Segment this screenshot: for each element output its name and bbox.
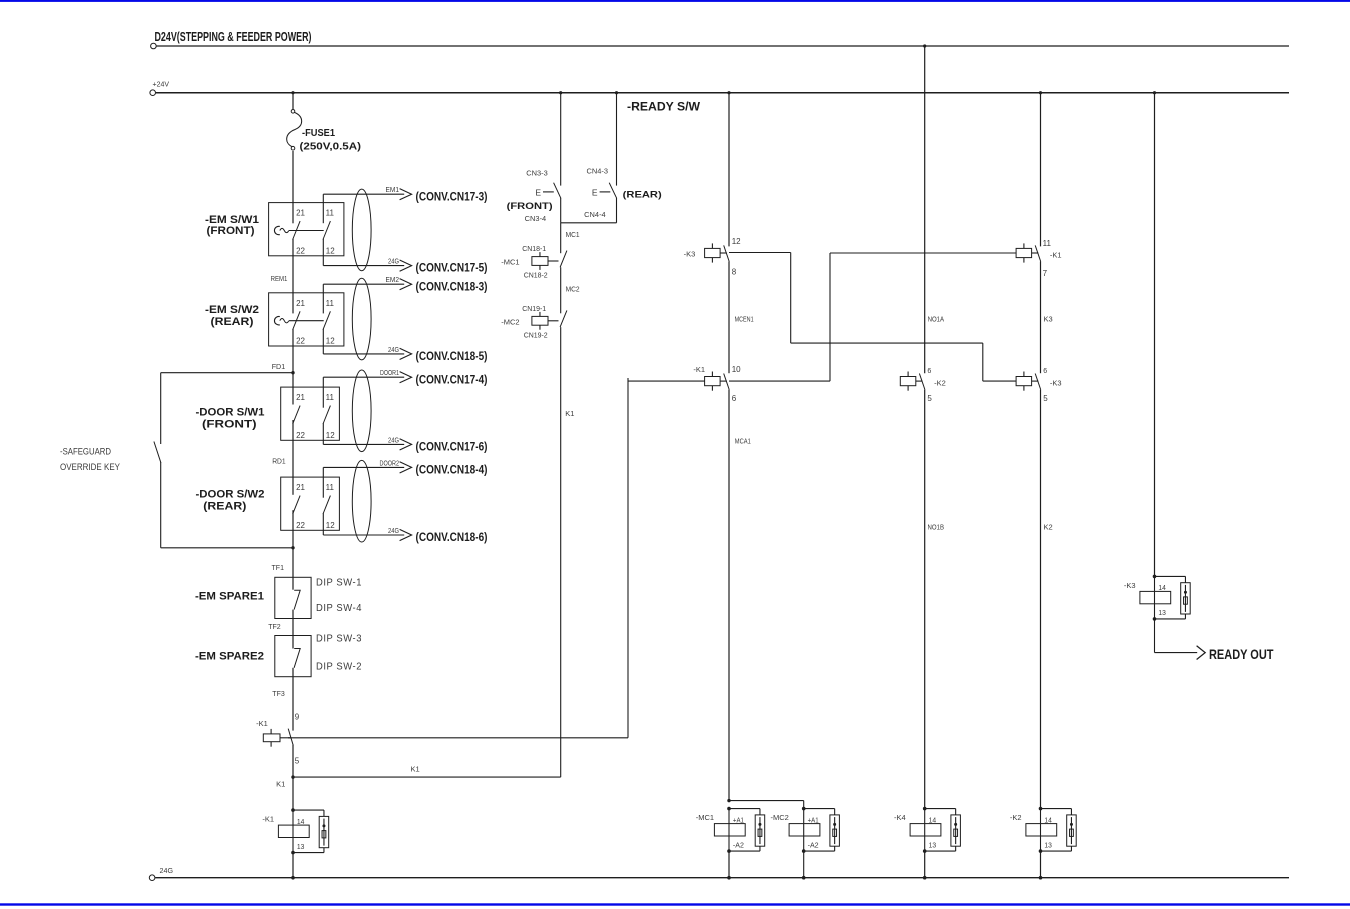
relay contact -K3 (6/5) actuator box <box>1016 372 1032 391</box>
svg-text:FD1: FD1 <box>272 362 286 371</box>
junction dot front E branch at +24V <box>559 91 562 94</box>
svg-text:-K3: -K3 <box>1124 581 1136 590</box>
relay contact -K1 (11/7) moving contact <box>1035 245 1041 261</box>
svg-text:(CONV.CN17-4): (CONV.CN17-4) <box>416 374 488 386</box>
label pin 8 <box>732 267 737 276</box>
EM SPARE1 contact <box>294 590 300 609</box>
door switch DOOR S/W1 bottom output corner wire <box>322 423 324 444</box>
contactor coil -MC2 suppressor top wire <box>804 809 835 815</box>
svg-text:TF3: TF3 <box>272 689 285 698</box>
emergency switch EM S/W1 top output corner wire <box>322 194 324 223</box>
wire MC column to 24G rail <box>728 851 730 878</box>
door switch DOOR S/W2 cable ellipse <box>352 460 371 542</box>
svg-text:12: 12 <box>732 237 741 246</box>
svg-text:K3: K3 <box>1044 315 1053 324</box>
wire ready branch to MC1 contact <box>560 223 562 253</box>
relay coil -K1 suppressor bottom wire <box>293 848 324 853</box>
svg-text:11: 11 <box>326 299 335 308</box>
label net K3 <box>1044 315 1053 324</box>
label DIP SW-4 <box>316 603 362 614</box>
svg-text:12: 12 <box>326 431 335 440</box>
door switch DOOR S/W1 right contact <box>323 406 330 424</box>
svg-text:11: 11 <box>1043 239 1052 248</box>
wire safeguard vertical upper <box>160 373 162 444</box>
label -READY S/W <box>627 102 700 114</box>
svg-text:-EM SPARE2: -EM SPARE2 <box>195 651 264 663</box>
label -EM SPARE2 <box>195 651 264 663</box>
svg-text:7: 7 <box>1043 269 1048 278</box>
svg-text:21: 21 <box>296 483 305 492</box>
label relay coil -K2 pin 14 <box>1044 815 1052 824</box>
label wire name DOOR1 <box>380 368 399 377</box>
svg-text:(CONV.CN18-5): (CONV.CN18-5) <box>416 351 488 363</box>
EM SPARE1 box <box>275 577 311 618</box>
emergency switch EM S/W1 enclosure box <box>269 203 344 256</box>
wire NO1B segment <box>924 390 926 809</box>
emergency switch EM S/W1 pin label 11 <box>326 209 335 218</box>
svg-text:-SAFEGUARD: -SAFEGUARD <box>60 447 111 457</box>
emergency switch EM S/W2 key operator symbol <box>274 317 288 325</box>
svg-text:MC1: MC1 <box>566 230 580 239</box>
wire main column fuse to EM S/W1 <box>292 151 294 223</box>
svg-text:-K2: -K2 <box>1010 813 1022 822</box>
contactor coil -MC2 coil rectangle <box>789 824 820 836</box>
label relay contact -K3 (6/5) name -K3 <box>1050 379 1062 388</box>
relay contact -K3 (6/5) link to contact <box>1032 380 1039 382</box>
net D24V rail wire <box>151 43 1289 49</box>
wire MC2 branch to 24G rail <box>803 851 805 878</box>
label relay coil -K4 pin 13 <box>929 840 937 849</box>
relay coil -K2 coil rectangle <box>1026 824 1057 836</box>
svg-text:DIP SW-2: DIP SW-2 <box>316 662 362 673</box>
emergency switch EM S/W1 pin label 21 <box>296 209 305 218</box>
junction dot rear E branch at +24V <box>615 91 618 94</box>
contactor coil -MC1 surge suppressor <box>755 815 765 846</box>
wire readyline riser <box>627 378 629 738</box>
contact -MC1 moving contact <box>560 251 567 268</box>
svg-text:13: 13 <box>929 840 937 849</box>
svg-text:5: 5 <box>927 394 932 403</box>
relay coil -K4 suppressor bottom wire <box>925 846 956 851</box>
arrow head 24G to CONV.CN17-5 <box>400 260 412 271</box>
svg-text:(CONV.CN17-6): (CONV.CN17-6) <box>416 442 488 454</box>
svg-text:CN3-3: CN3-3 <box>526 171 548 178</box>
svg-text:5: 5 <box>295 756 300 765</box>
emergency switch EM S/W1 key operator symbol <box>274 226 288 234</box>
junction dot safeguard bottom at main column <box>291 546 294 549</box>
relay coil -K4 bottom junction dot <box>923 849 927 853</box>
svg-text:-A2: -A2 <box>808 840 819 849</box>
junction dot MC column at +24V <box>727 91 730 94</box>
label contact -MC1 pin CN18-2 <box>524 273 548 280</box>
relay coil -K2 suppressor bottom wire <box>1041 846 1072 851</box>
wire main column below DOOR S/W1 <box>292 420 294 495</box>
EM SPARE2 contact <box>294 649 300 668</box>
relay coil -K1 top junction dot <box>291 808 295 812</box>
svg-text:K1: K1 <box>411 765 420 774</box>
svg-text:14: 14 <box>297 817 305 826</box>
label relay contact -K1 (10/6) name -K1 <box>693 365 705 374</box>
wire safeguard top branch <box>161 372 293 374</box>
svg-text:CN3-4: CN3-4 <box>525 216 547 223</box>
label CN3-3 <box>526 171 548 178</box>
wire K3 column to 24G <box>1040 851 1042 878</box>
svg-text:DOOR1: DOOR1 <box>380 368 399 377</box>
relay coil -K1 bottom junction dot <box>291 851 295 855</box>
svg-text:+24V: +24V <box>153 80 170 89</box>
svg-text:-K3: -K3 <box>684 250 696 259</box>
label wire name 24G <box>388 345 399 354</box>
junction dot FD1 <box>291 371 294 374</box>
net +24V rail wire <box>150 90 1289 96</box>
relay coil -K2 wire through coil <box>1040 809 1042 852</box>
svg-text:9: 9 <box>295 712 300 721</box>
label net MCA1 <box>735 437 751 446</box>
label destination (CONV.CN17-6) <box>416 442 488 454</box>
wire safeguard vertical lower <box>160 462 162 548</box>
wire main column coil to 24G rail <box>292 853 294 878</box>
E-stop contact rear (CN4-3/CN4-4) <box>609 183 617 199</box>
label fuse rating (250V,0.5A) <box>300 141 362 153</box>
svg-text:(CONV.CN18-4): (CONV.CN18-4) <box>416 465 488 477</box>
label wire name DOOR2 <box>380 458 400 467</box>
relay coil -K3 wire through coil <box>1154 576 1156 619</box>
contactor coil -MC2 suppressor bottom wire <box>804 846 835 851</box>
relay contact -K2 (6/5) actuator box <box>900 372 916 391</box>
label DIP SW-2 <box>316 662 362 673</box>
door switch DOOR S/W2 top output corner wire <box>322 467 324 497</box>
wire main column through EM S/W1 box <box>292 239 294 314</box>
label destination (CONV.CN17-4) <box>416 374 488 386</box>
label CN3-4 <box>525 216 547 223</box>
relay contact -K2 (6/5) moving contact <box>919 374 925 390</box>
svg-text:(250V,0.5A): (250V,0.5A) <box>300 141 362 153</box>
svg-text:6: 6 <box>1043 368 1047 375</box>
wire EM1 to CONV.CN17-3 output <box>323 193 404 195</box>
label relay coil -K3 pin 14 <box>1158 583 1166 592</box>
svg-text:MCEN1: MCEN1 <box>735 315 754 324</box>
svg-text:22: 22 <box>296 521 305 530</box>
svg-text:21: 21 <box>296 393 305 402</box>
label net NO1A <box>928 315 945 324</box>
svg-text:(REAR): (REAR) <box>623 190 662 201</box>
label net MCEN1 <box>735 315 754 324</box>
junction dot main column at 24G rail <box>291 876 295 880</box>
svg-text:24G: 24G <box>388 435 399 444</box>
arrow head EM1 to CONV.CN17-3 <box>400 189 412 200</box>
relay contact -K1 (10/6) actuator box <box>705 372 721 391</box>
door switch DOOR S/W1 left contact <box>293 406 300 424</box>
door switch DOOR S/W1 pin label 12 <box>326 431 335 440</box>
wire main column below spare2 <box>292 668 294 731</box>
relay contact -K1 (9/5) actuator box <box>263 729 280 747</box>
label (REAR) door2 <box>203 501 246 513</box>
border top blue line <box>0 0 1350 2</box>
label destination (CONV.CN17-3) <box>416 191 488 203</box>
label pin 5 (K2) <box>927 394 932 403</box>
wire 24G to CONV.CN17-5 output <box>323 265 404 267</box>
svg-text:-MC1: -MC1 <box>696 813 714 822</box>
label CN4-3 <box>587 169 609 176</box>
label pin 12 <box>732 237 741 246</box>
label pin 7 <box>1043 269 1048 278</box>
relay coil -K3 bottom junction dot <box>1153 617 1157 621</box>
svg-text:-MC2: -MC2 <box>501 317 519 326</box>
svg-text:-K4: -K4 <box>894 813 906 822</box>
label pin 9 <box>295 712 300 721</box>
wire 24G to CONV.CN17-6 output <box>323 443 404 445</box>
label contact -MC2 pin CN19-2 <box>524 332 548 339</box>
contactor coil -MC2 top junction dot <box>802 807 806 811</box>
relay coil -K3 suppressor top wire <box>1155 576 1186 582</box>
contact -MC1 actuator box <box>532 252 548 270</box>
label relay contact -K1 (9/5) name <box>256 719 268 728</box>
wire K3 net segment <box>1040 262 1042 374</box>
svg-text:6: 6 <box>927 368 931 375</box>
svg-text:K1: K1 <box>565 409 574 418</box>
wire K1 contact to K1(11/7) <box>729 253 1016 381</box>
label -EM SPARE1 <box>195 591 264 603</box>
label node TF2 <box>268 622 281 631</box>
svg-text:-A2: -A2 <box>733 840 744 849</box>
label contact -MC2 name <box>501 317 519 326</box>
svg-text:CN4-4: CN4-4 <box>584 212 606 219</box>
svg-text:24G: 24G <box>388 526 399 535</box>
emergency switch EM S/W1 left contact <box>293 221 300 239</box>
svg-text:21: 21 <box>296 299 305 308</box>
wire front E branch upper <box>560 93 562 186</box>
door switch DOOR S/W2 right contact <box>323 496 330 514</box>
door switch DOOR S/W2 left contact <box>293 496 300 514</box>
net +24V label <box>153 80 170 89</box>
svg-text:READY OUT: READY OUT <box>1209 646 1274 662</box>
label wire name EM2 <box>386 275 400 284</box>
label relay contact -K1 (11/7) name -K1 <box>1050 251 1062 260</box>
emergency switch EM S/W1 mechanical link wire <box>289 230 324 232</box>
junction dot MC column at 24G <box>727 876 731 880</box>
junction dot seal rung <box>291 775 294 778</box>
relay contact -K1 (11/7) link to contact <box>1032 252 1039 254</box>
svg-text:MC2: MC2 <box>566 285 580 294</box>
contactor coil -MC1 suppressor bottom wire <box>729 846 760 851</box>
wire rear E branch upper <box>616 93 618 186</box>
label relay coil -K3 name -K3 <box>1124 581 1136 590</box>
door switch DOOR S/W1 enclosure box <box>281 387 340 440</box>
svg-text:(REAR): (REAR) <box>203 501 246 513</box>
junction dot READY column at +24V <box>1153 91 1156 94</box>
wire MCA1 segment <box>728 390 730 801</box>
arrow head 24G to CONV.CN17-6 <box>400 439 412 450</box>
svg-text:OVERRIDE KEY: OVERRIDE KEY <box>60 462 120 472</box>
label MC1 net <box>566 230 580 239</box>
contactor coil -MC1 suppressor top wire <box>729 809 760 815</box>
label node TF1 <box>272 563 285 572</box>
svg-text:11: 11 <box>326 209 335 218</box>
relay coil -K4 suppressor top wire <box>925 809 956 815</box>
relay contact -K1 (10/6) moving contact <box>724 374 730 390</box>
svg-text:(CONV.CN17-3): (CONV.CN17-3) <box>416 191 488 203</box>
svg-text:(CONV.CN18-6): (CONV.CN18-6) <box>416 532 488 544</box>
label destination (CONV.CN18-3) <box>416 281 488 293</box>
contactor coil -MC2 wire through coil <box>803 809 805 852</box>
label -DOOR S/W2 <box>196 489 265 501</box>
svg-text:-MC2: -MC2 <box>770 813 788 822</box>
svg-text:-FUSE1: -FUSE1 <box>302 128 335 139</box>
contact -MC2 link to contact <box>548 320 559 322</box>
svg-text:TF2: TF2 <box>268 622 281 631</box>
arrow head EM2 to CONV.CN18-3 <box>400 279 412 290</box>
svg-text:8: 8 <box>732 267 737 276</box>
label CN4-4 <box>584 212 606 219</box>
relay coil -K1 surge suppressor <box>319 816 329 847</box>
arrow head 24G to CONV.CN18-6 <box>400 529 412 540</box>
wire E front operator dash <box>543 191 554 193</box>
label wire name 24G <box>388 526 399 535</box>
svg-text:22: 22 <box>296 431 305 440</box>
emergency switch EM S/W2 left contact <box>293 311 300 329</box>
label wire name EM1 <box>386 185 400 194</box>
door switch DOOR S/W2 pin label 22 <box>296 521 305 530</box>
relay contact -K1 (9/5) moving contact <box>288 729 293 746</box>
wire main column to fuse <box>292 93 294 110</box>
svg-text:21: 21 <box>296 209 305 218</box>
label relay coil -K3 pin 13 <box>1158 608 1166 617</box>
EM SPARE2 box <box>275 636 311 677</box>
svg-text:22: 22 <box>296 246 305 255</box>
relay coil -K2 suppressor top wire <box>1041 809 1072 815</box>
wire MC2 branch top <box>729 801 804 809</box>
svg-text:MCA1: MCA1 <box>735 437 751 446</box>
label destination (CONV.CN18-4) <box>416 465 488 477</box>
svg-text:14: 14 <box>929 815 937 824</box>
label relay coil -K4 pin 14 <box>929 815 937 824</box>
relay contact -K1 (9/5) link to contact <box>280 737 291 739</box>
label (FRONT) <box>207 225 255 237</box>
svg-text:13: 13 <box>1044 840 1052 849</box>
label (FRONT) door1 <box>202 419 257 431</box>
label contactor coil -MC1 name -MC1 <box>696 813 714 822</box>
label destination (CONV.CN17-5) <box>416 263 488 275</box>
safeguard key switch contact <box>154 442 161 463</box>
svg-text:CN19-2: CN19-2 <box>524 332 548 339</box>
svg-text:6: 6 <box>732 394 737 403</box>
label MC2 net <box>566 285 580 294</box>
wire READY column lower <box>1154 619 1156 653</box>
label relay coil -K2 pin 13 <box>1044 840 1052 849</box>
label E rear <box>592 188 598 198</box>
door switch DOOR S/W2 pin label 12 <box>326 521 335 530</box>
emergency switch EM S/W1 right contact <box>323 221 330 239</box>
wire MCEN1 segment <box>728 262 730 374</box>
emergency switch EM S/W2 pin label 12 <box>326 337 335 346</box>
svg-text:14: 14 <box>1158 583 1166 592</box>
label (REAR) <box>211 316 254 328</box>
wire 24G to CONV.CN18-5 output <box>323 353 404 355</box>
svg-text:TF1: TF1 <box>272 563 285 572</box>
relay contact -K1 (10/6) link to contact <box>720 380 727 382</box>
label relay coil -K2 name -K2 <box>1010 813 1022 822</box>
wire K3 contact to crossover <box>729 253 791 344</box>
label net K2 <box>1044 523 1053 532</box>
emergency switch EM S/W2 mechanical link wire <box>289 320 324 322</box>
wire MC column upper <box>728 93 730 247</box>
label wire K1 (at main column) <box>276 780 285 789</box>
wire DOOR1 to CONV.CN17-4 output <box>323 376 404 378</box>
emergency switch EM S/W2 pin label 11 <box>326 299 335 308</box>
label node FD1 <box>272 362 286 371</box>
svg-text:12: 12 <box>326 337 335 346</box>
wire NO1A column upper <box>924 46 926 373</box>
label K1 net (ready branch) <box>565 409 574 418</box>
wire DOOR2 to CONV.CN18-4 output <box>323 466 404 468</box>
net D24V rail label <box>155 30 312 44</box>
relay coil -K3 suppressor bottom wire <box>1155 614 1186 619</box>
relay contact -K3 (6/5) moving contact <box>1035 374 1041 390</box>
emergency switch EM S/W2 bottom output corner wire <box>322 329 324 354</box>
label wire name 24G <box>388 257 399 266</box>
svg-text:(REAR): (REAR) <box>211 316 254 328</box>
junction dot NO1A column at D24V <box>923 44 926 47</box>
svg-text:EM2: EM2 <box>386 275 400 284</box>
svg-text:CN18-2: CN18-2 <box>524 273 548 280</box>
fuse F1 symbol <box>287 110 302 151</box>
svg-text:(FRONT): (FRONT) <box>507 201 553 212</box>
svg-text:RD1: RD1 <box>272 456 286 465</box>
relay contact -K1 (11/7) actuator box <box>1016 243 1032 262</box>
relay contact -K1 (10/6) wire into actuator box <box>628 380 705 382</box>
relay coil -K1 coil rectangle <box>278 825 309 837</box>
relay coil -K2 top junction dot <box>1039 807 1043 811</box>
svg-text:DIP SW-1: DIP SW-1 <box>316 578 362 589</box>
label contactor coil -MC1 pin +A1 <box>733 815 744 824</box>
svg-text:-DOOR S/W2: -DOOR S/W2 <box>196 489 265 501</box>
contactor coil -MC1 top junction dot <box>727 807 731 811</box>
svg-text:-K2: -K2 <box>934 379 946 388</box>
label node RD1 <box>272 456 286 465</box>
contact -MC2 actuator box <box>532 312 548 330</box>
wire E rear operator dash <box>600 191 611 193</box>
junction dot K3 column at +24V <box>1039 91 1042 94</box>
svg-text:CN4-3: CN4-3 <box>587 169 609 176</box>
label READY OUT <box>1209 646 1274 662</box>
label DIP SW-1 <box>316 578 362 589</box>
relay coil -K4 coil rectangle <box>910 824 941 836</box>
junction dot K3 column at 24G <box>1039 876 1043 880</box>
label pin 5 <box>295 756 300 765</box>
wire E branches join <box>561 222 617 224</box>
door switch DOOR S/W2 pin label 11 <box>326 483 335 492</box>
door switch DOOR S/W2 pin label 21 <box>296 483 305 492</box>
emergency switch EM S/W2 pin label 21 <box>296 299 305 308</box>
label pin 11 <box>1043 239 1052 248</box>
label contact -MC1 name <box>501 258 519 267</box>
label contact -MC1 pin CN18-1 <box>522 246 546 253</box>
svg-text:REM1: REM1 <box>271 274 288 283</box>
relay coil -K3 surge suppressor <box>1181 583 1191 614</box>
label wire K1 (mid rung) <box>411 765 420 774</box>
svg-text:(FRONT): (FRONT) <box>207 225 255 237</box>
label pin 5 (K3) <box>1043 394 1048 403</box>
svg-text:DIP SW-3: DIP SW-3 <box>316 634 362 645</box>
svg-text:24G: 24G <box>388 257 399 266</box>
svg-text:13: 13 <box>1158 608 1166 617</box>
arrow head 24G to CONV.CN18-5 <box>400 348 412 359</box>
contactor coil -MC2 bottom junction dot <box>802 849 806 853</box>
svg-text:(CONV.CN18-3): (CONV.CN18-3) <box>416 281 488 293</box>
svg-text:+A1: +A1 <box>808 815 819 824</box>
relay coil -K2 surge suppressor <box>1067 815 1077 846</box>
emergency switch EM S/W1 cable ellipse <box>352 189 371 271</box>
